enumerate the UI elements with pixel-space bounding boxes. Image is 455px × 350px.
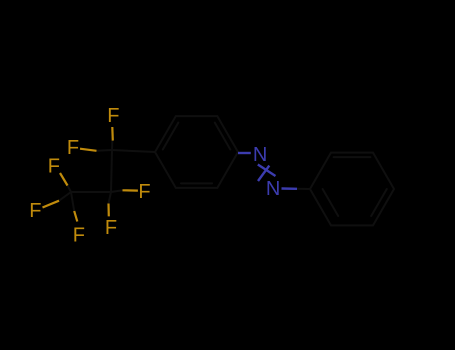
svg-text:F: F: [67, 137, 79, 159]
svg-text:N: N: [253, 144, 267, 166]
svg-text:F: F: [105, 217, 117, 239]
svg-text:F: F: [138, 181, 150, 203]
svg-text:F: F: [107, 105, 119, 127]
svg-text:N: N: [266, 178, 280, 200]
svg-text:F: F: [29, 200, 41, 222]
svg-text:F: F: [73, 224, 85, 246]
svg-text:F: F: [48, 155, 60, 177]
